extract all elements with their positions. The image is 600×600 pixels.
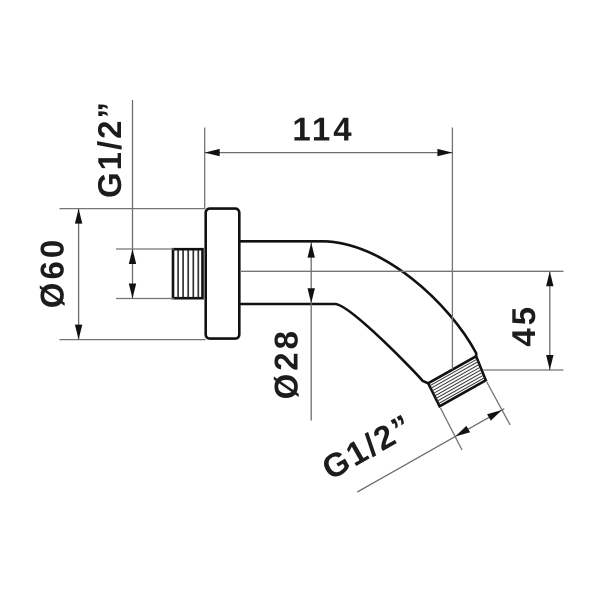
G1/2 wall bottom arrow <box>129 284 136 299</box>
G1/2 outlet extension B <box>441 408 463 450</box>
114 left extension <box>204 128 206 209</box>
45 bottom arrow <box>546 355 553 370</box>
dim dia28 line <box>310 243 312 421</box>
G1/2 wall bottom extension <box>116 298 174 300</box>
outlet thread hatch <box>430 359 485 404</box>
dim 114 line <box>205 152 453 154</box>
G1/2 outlet arrow lower-left <box>455 426 470 437</box>
wall-side thread block <box>173 249 203 298</box>
G1/2 outlet extension A <box>487 382 510 425</box>
svg-text:Ø28: Ø28 <box>268 328 305 399</box>
svg-text:114: 114 <box>292 111 354 148</box>
shower arm tube body <box>239 241 477 383</box>
wall-side thread hatch <box>178 250 198 297</box>
dim dia60 top arrow <box>75 209 82 224</box>
dim dia60 bottom arrow <box>75 325 82 340</box>
G1/2 outlet dim line <box>357 409 504 492</box>
dim 114 left arrow <box>205 149 220 156</box>
svg-text:45: 45 <box>505 304 542 347</box>
45 top arrow <box>546 271 553 286</box>
dia60 top extension <box>60 208 206 210</box>
dim 114 right arrow <box>437 149 452 156</box>
G1/2 wall thread dim line <box>132 100 134 299</box>
dim 45 line <box>549 271 551 370</box>
45 bottom extension <box>484 369 564 371</box>
dia28 top arrow <box>308 243 315 258</box>
dia28 bottom arrow <box>308 288 315 303</box>
G1/2 outlet arrow upper-right <box>487 410 502 421</box>
centerline / 45 top extension <box>240 270 564 272</box>
wall flange <box>206 209 240 339</box>
dia60 bottom extension <box>60 339 206 341</box>
svg-text:Ø60: Ø60 <box>34 237 71 308</box>
G1/2 wall top arrow <box>129 249 136 264</box>
dim dia60 line <box>78 209 80 340</box>
svg-text:G1/2”: G1/2” <box>91 100 128 198</box>
114 right extension <box>451 128 453 370</box>
G1/2 wall top extension <box>116 248 174 250</box>
outlet thread band <box>428 356 486 406</box>
